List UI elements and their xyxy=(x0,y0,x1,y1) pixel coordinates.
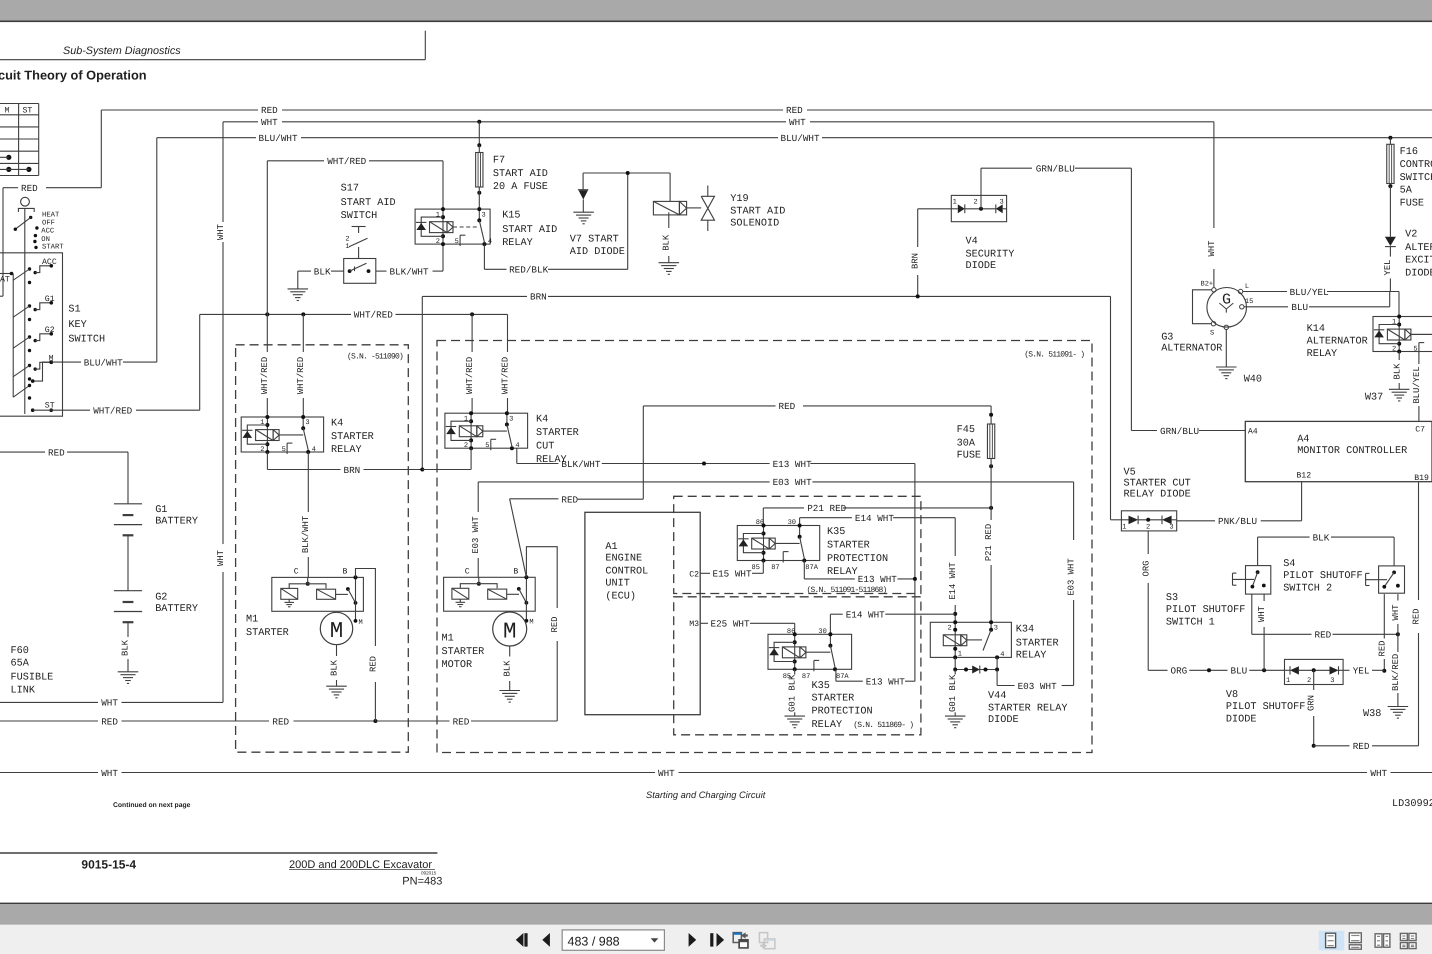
wire E13 WHT vertical xyxy=(913,464,917,682)
svg-text:E13 WHT: E13 WHT xyxy=(773,459,812,470)
svg-text:F45: F45 xyxy=(957,425,975,436)
svg-text:RED: RED xyxy=(453,716,470,727)
svg-text:WHT: WHT xyxy=(101,768,118,779)
svg-text:M: M xyxy=(330,618,344,644)
svg-text:V4: V4 xyxy=(966,237,978,248)
svg-text:WHT: WHT xyxy=(1370,768,1387,779)
svg-text:RED: RED xyxy=(272,716,289,727)
toolbar last-page button xyxy=(710,933,724,947)
S1 contact G2 xyxy=(13,326,55,352)
wire RED mid bus xyxy=(643,401,991,499)
wire YEL V8 to S4 xyxy=(1343,666,1384,677)
wire RED top bus xyxy=(101,105,1432,116)
svg-text:1: 1 xyxy=(1122,523,1126,531)
wire RED diagonal to starter B xyxy=(510,499,527,578)
wire BRN V4 to BRN bus xyxy=(911,209,952,297)
svg-text:87A: 87A xyxy=(836,673,849,681)
S17 pushbutton symbol xyxy=(345,227,367,259)
svg-text:3: 3 xyxy=(482,211,486,219)
svg-text:M3: M3 xyxy=(689,620,699,629)
svg-text:9015-15-4: 9015-15-4 xyxy=(81,857,136,871)
svg-text:3: 3 xyxy=(509,415,513,423)
svg-text:DIODE: DIODE xyxy=(1226,714,1257,725)
svg-text:STARTER CUT: STARTER CUT xyxy=(1124,479,1191,490)
toolbar single-page layout button (selected) xyxy=(1319,931,1345,951)
svg-text:BATTERY: BATTERY xyxy=(155,517,198,528)
toolbar navigate-back icon xyxy=(733,932,749,948)
svg-text:BLU/WHT: BLU/WHT xyxy=(84,357,123,368)
ground W38 xyxy=(1363,707,1408,721)
svg-text:K14: K14 xyxy=(1307,324,1325,335)
svg-text:UNIT: UNIT xyxy=(605,579,629,590)
svg-text:cuit Theory of Operation: cuit Theory of Operation xyxy=(0,68,147,83)
svg-text:BLK: BLK xyxy=(1392,363,1402,380)
wire PNK/BLU A4 B12 to V5 pin3 xyxy=(1177,482,1302,527)
wire P21 RED from K35A pin86 xyxy=(763,503,993,525)
controller A4 MONITOR CONTROLLER box xyxy=(1245,421,1432,483)
svg-text:M1: M1 xyxy=(442,634,454,645)
svg-text:Continued on next page: Continued on next page xyxy=(113,802,191,809)
wire vertical S17 to K15 pin1 xyxy=(442,161,444,209)
ground S17 xyxy=(288,289,309,301)
svg-text:WHT/RED: WHT/RED xyxy=(500,357,510,394)
S1 contact M xyxy=(13,354,53,380)
table dot M row xyxy=(0,155,11,160)
wire ORG V5 pin2 down xyxy=(1142,531,1152,670)
svg-text:1: 1 xyxy=(1392,319,1396,327)
wire WHT S4 right xyxy=(1391,594,1401,634)
footer 200D and 200DLC Excavator xyxy=(289,859,437,876)
svg-text:BLK/RED: BLK/RED xyxy=(1391,654,1401,691)
svg-text:SWITCH 2: SWITCH 2 xyxy=(1283,583,1332,594)
svg-text:BATTERY: BATTERY xyxy=(155,604,198,615)
svg-text:ST: ST xyxy=(23,106,33,115)
svg-text:M: M xyxy=(359,619,363,627)
svg-text:200D and 200DLC Excavator: 200D and 200DLC Excavator xyxy=(289,859,432,871)
svg-text:483 / 988: 483 / 988 xyxy=(568,934,620,948)
svg-text:S17: S17 xyxy=(341,183,359,194)
svg-text:K4: K4 xyxy=(536,415,548,426)
toolbar continuous layout button xyxy=(1349,933,1361,949)
svg-text:E14 WHT: E14 WHT xyxy=(855,513,894,524)
svg-text:RELAY: RELAY xyxy=(827,567,858,578)
wire BRN K4cut pin2 xyxy=(422,448,471,469)
svg-text:GRN/BLU: GRN/BLU xyxy=(1160,426,1199,437)
svg-text:2: 2 xyxy=(1392,346,1396,354)
wire BLK Y19 to ground xyxy=(662,212,672,262)
wire WHT S3 right to BLU line xyxy=(1257,594,1267,670)
svg-text:M: M xyxy=(5,106,10,115)
svg-text:P21 RED: P21 RED xyxy=(807,503,846,514)
svg-text:(S.N. 511091-511868): (S.N. 511091-511868) xyxy=(807,586,887,595)
wire RED from battery bus to key switch xyxy=(0,183,101,296)
svg-text:5: 5 xyxy=(455,238,459,246)
svg-text:BRN: BRN xyxy=(344,465,361,476)
svg-text:ORG: ORG xyxy=(1171,666,1188,677)
svg-text:RED: RED xyxy=(1378,641,1388,657)
wire BAT terminal xyxy=(0,272,13,285)
svg-text:(S.N. 511091- ): (S.N. 511091- ) xyxy=(1024,350,1084,359)
svg-text:V8: V8 xyxy=(1226,690,1238,701)
wire ORG/BLU to V8 xyxy=(1148,666,1284,677)
svg-text:15: 15 xyxy=(1245,298,1253,306)
svg-text:RED/BLK: RED/BLK xyxy=(509,265,548,276)
wire WHT/RED S17 top xyxy=(267,156,443,167)
svg-text:G01 BLK: G01 BLK xyxy=(948,674,958,712)
svg-text:ALTER: ALTER xyxy=(1405,243,1432,254)
svg-text:BLU/WHT: BLU/WHT xyxy=(781,133,820,144)
wire WHT top bus xyxy=(223,117,1214,128)
junction dot WHT bus / F7 xyxy=(477,120,481,124)
toolbar first-page button xyxy=(516,933,528,947)
svg-text:WHT: WHT xyxy=(1207,241,1217,257)
svg-text:GRN/BLU: GRN/BLU xyxy=(1036,164,1075,175)
svg-text:STARTER RELAY: STARTER RELAY xyxy=(988,704,1067,715)
ground Y19 xyxy=(659,263,680,275)
relay K4 STARTER RELAY xyxy=(241,415,374,456)
svg-text:WHT: WHT xyxy=(216,224,226,240)
svg-text:WHT/RED: WHT/RED xyxy=(260,357,270,394)
wire BLU/YEL K14 pin5 to A4 C7 xyxy=(1412,353,1422,422)
diode assembly V5 STARTER CUT RELAY DIODE xyxy=(1121,467,1190,531)
wire RED to ECU area xyxy=(510,494,644,505)
wire BLK/RED to W38 ground xyxy=(1391,634,1401,706)
wire BLK M1 motor to ground xyxy=(503,646,513,691)
ground K34 xyxy=(945,716,966,728)
svg-text:YEL: YEL xyxy=(1383,260,1393,276)
svg-text:B: B xyxy=(513,567,518,576)
svg-text:ACC: ACC xyxy=(42,258,57,267)
svg-text:5: 5 xyxy=(1413,346,1417,354)
svg-text:L: L xyxy=(1245,283,1249,291)
svg-text:WHT/RED: WHT/RED xyxy=(93,405,132,416)
svg-text:WHT: WHT xyxy=(658,768,675,779)
caption Continued on next page xyxy=(113,802,191,809)
svg-text:RED: RED xyxy=(368,656,378,672)
svg-text:BLK/WHT: BLK/WHT xyxy=(561,459,600,470)
svg-text:K4: K4 xyxy=(331,419,343,430)
svg-text:FUSE: FUSE xyxy=(1400,199,1424,210)
svg-text:STARTER: STARTER xyxy=(1016,638,1059,649)
svg-text:RED: RED xyxy=(21,183,38,194)
wire BLU/WHT from S1 M contact xyxy=(31,138,157,383)
svg-text:WHT: WHT xyxy=(1257,606,1267,622)
svg-text:85: 85 xyxy=(752,564,760,572)
svg-text:WHT: WHT xyxy=(101,698,118,709)
svg-text:C: C xyxy=(294,567,299,576)
svg-text:P21 RED: P21 RED xyxy=(984,524,994,561)
svg-text:B: B xyxy=(343,567,348,576)
controller A1 ENGINE CONTROL UNIT box xyxy=(585,512,700,714)
ground battery xyxy=(118,672,139,684)
wire WHT/RED from S1 ST contact xyxy=(33,314,200,416)
footer rule xyxy=(0,852,437,854)
svg-text:65A: 65A xyxy=(11,659,30,670)
svg-text:W38: W38 xyxy=(1363,709,1381,720)
svg-text:BLK: BLK xyxy=(503,660,513,677)
svg-text:PN=483: PN=483 xyxy=(402,875,442,887)
battery G1 xyxy=(114,504,198,536)
svg-text:4: 4 xyxy=(488,238,492,246)
svg-text:WHT/RED: WHT/RED xyxy=(354,310,393,321)
diode V44 STARTER RELAY DIODE xyxy=(953,657,1067,726)
dashed box K35 early xyxy=(674,496,921,593)
svg-text:Y19: Y19 xyxy=(730,194,748,205)
wire P21 RED F45 to K34 pin3 xyxy=(984,466,994,622)
svg-text:HEAT: HEAT xyxy=(42,211,60,219)
dashed box S.N. 511091- xyxy=(437,341,1092,753)
caption LD30992 xyxy=(1392,799,1432,810)
starter M1 STARTER MOTOR solenoid xyxy=(442,567,536,671)
footer PN=483 xyxy=(402,875,442,887)
wire RED S4 left to YEL line xyxy=(1378,594,1388,673)
svg-text:1: 1 xyxy=(345,243,349,251)
svg-text:86: 86 xyxy=(787,628,795,636)
svg-text:4: 4 xyxy=(515,442,519,450)
svg-text:CONTROL: CONTROL xyxy=(1400,160,1432,171)
svg-text:SOLENOID: SOLENOID xyxy=(730,219,779,230)
svg-text:START AID: START AID xyxy=(493,169,548,180)
key switch contact table xyxy=(0,104,39,176)
svg-text:WHT: WHT xyxy=(216,550,226,566)
wire W40 ground G3 xyxy=(1216,330,1262,386)
solenoid Y19 coil xyxy=(653,173,785,230)
svg-text:BLK: BLK xyxy=(120,639,130,656)
wire WHT/RED bus xyxy=(200,310,508,321)
svg-text:BRN: BRN xyxy=(530,292,547,303)
toolbar next-page button xyxy=(689,933,697,947)
relay K15 START AID xyxy=(415,207,557,249)
motor M1 STARTER MOTOR xyxy=(493,612,527,646)
svg-text:2: 2 xyxy=(260,446,264,454)
svg-text:SECURITY: SECURITY xyxy=(966,250,1015,261)
S1 contact ST xyxy=(13,384,55,412)
svg-text:E03 WHT: E03 WHT xyxy=(471,516,481,553)
svg-text:RELAY: RELAY xyxy=(1307,349,1338,360)
ground M1 early xyxy=(326,686,347,698)
svg-text:MOTOR: MOTOR xyxy=(442,660,473,671)
diode assembly V8 PILOT SHUTOFF DIODE xyxy=(1226,659,1343,725)
ground W37 xyxy=(1365,389,1410,403)
svg-text:START AID: START AID xyxy=(341,198,396,209)
wire BLK/WHT E13 from K4cut pin4 xyxy=(517,448,915,470)
svg-text:30: 30 xyxy=(818,628,826,636)
wire BLU/YEL G3 L to K14 xyxy=(1243,287,1399,317)
toolbar book-view layout button xyxy=(1400,933,1416,948)
wire RED M1 early B to RED bus xyxy=(356,569,379,722)
svg-text:1: 1 xyxy=(1286,677,1290,685)
svg-text:RED: RED xyxy=(48,447,65,458)
wire E03 WHT from K34 pin4 xyxy=(997,482,1076,692)
svg-text:G2: G2 xyxy=(155,593,167,604)
wire WHT/RED vertical to K4 pin1 xyxy=(260,161,270,417)
svg-text:2: 2 xyxy=(948,624,952,632)
wire RED line S3-S4 xyxy=(1252,630,1400,641)
svg-text:1: 1 xyxy=(464,415,468,423)
wire WHT bottom bus xyxy=(0,768,1432,779)
svg-text:E03 WHT: E03 WHT xyxy=(1018,681,1057,692)
pdf viewer toolbar background xyxy=(0,925,1432,954)
svg-text:V7 START: V7 START xyxy=(570,234,619,245)
wire E14 WHT from K35A pin30 xyxy=(800,513,959,622)
svg-text:V2: V2 xyxy=(1405,230,1417,241)
svg-text:3: 3 xyxy=(1000,199,1004,207)
wire BRN K4 pin2 xyxy=(267,452,424,476)
svg-text:LINK: LINK xyxy=(11,685,36,696)
wire WHT to G3 B2+ xyxy=(1207,122,1217,288)
svg-text:A4: A4 xyxy=(1248,428,1258,437)
svg-text:PNK/BLU: PNK/BLU xyxy=(1218,516,1257,527)
svg-text:RELAY: RELAY xyxy=(812,720,843,731)
wire V7/Y19 top link xyxy=(583,171,670,175)
svg-text:RED: RED xyxy=(561,494,578,505)
wire BLK/WHT K4 pin4 to starter xyxy=(301,452,311,577)
svg-text:PROTECTION: PROTECTION xyxy=(812,707,873,718)
svg-text:K34: K34 xyxy=(1016,625,1034,636)
S1 contact G1 xyxy=(13,295,55,321)
S1 labels xyxy=(68,305,105,346)
pdf viewer bottom gray band xyxy=(0,903,1432,925)
svg-text:STARTER: STARTER xyxy=(536,428,579,439)
alternator G3 xyxy=(1161,280,1253,354)
diode V7 START AID xyxy=(570,173,625,258)
svg-text:C7: C7 xyxy=(1415,425,1425,434)
svg-text:CONTROL: CONTROL xyxy=(605,566,648,577)
svg-text:S: S xyxy=(1210,329,1214,337)
footer 9015-15-4 xyxy=(81,857,136,871)
wire E14 WHT from K35B pin30 xyxy=(830,610,955,635)
svg-text:RELAY: RELAY xyxy=(331,445,362,456)
svg-text:S1: S1 xyxy=(68,305,80,316)
svg-text:B19: B19 xyxy=(1414,474,1429,483)
svg-text:BLU: BLU xyxy=(1231,666,1248,677)
svg-text:OFF: OFF xyxy=(42,220,55,228)
svg-text:2: 2 xyxy=(1146,523,1150,531)
svg-text:5A: 5A xyxy=(1400,186,1413,197)
svg-text:MONITOR CONTROLLER: MONITOR CONTROLLER xyxy=(1297,446,1407,457)
wire WHT/RED vertical to K4cut pin1 xyxy=(465,314,475,413)
wire RED to G1 battery xyxy=(0,447,128,503)
motor M1 (early) xyxy=(320,612,352,644)
svg-text:STARTER: STARTER xyxy=(331,432,374,443)
wire E25 WHT ECU M3 to K35B pin86 xyxy=(689,619,795,635)
relay K35 STARTER PROTECTION (late) xyxy=(768,628,913,731)
svg-text:Sub-System Diagnostics: Sub-System Diagnostics xyxy=(63,45,181,57)
wire RED bottom bus xyxy=(0,716,557,727)
wire RED starter B loop to RED bus xyxy=(526,547,560,721)
S17 contacts xyxy=(348,263,371,273)
wire S3 left to RED line xyxy=(1251,594,1253,634)
svg-text:87: 87 xyxy=(802,673,810,681)
svg-text:(S.N. -511090): (S.N. -511090) xyxy=(347,352,403,361)
svg-text:2: 2 xyxy=(1307,677,1311,685)
svg-text:BLK: BLK xyxy=(329,659,339,676)
valve symbol Y19 xyxy=(687,186,715,232)
svg-text:ACC: ACC xyxy=(41,228,55,236)
wire WHT/RED vertical to K4cut pin3 xyxy=(500,314,510,413)
wire BRN bus xyxy=(422,292,1110,520)
svg-text:WHT: WHT xyxy=(1391,605,1401,621)
pdf viewer top gray bar xyxy=(0,0,1432,22)
svg-text:AID DIODE: AID DIODE xyxy=(570,247,625,258)
svg-text:SWITCH: SWITCH xyxy=(68,335,105,346)
svg-text:V44: V44 xyxy=(988,691,1006,702)
svg-text:1: 1 xyxy=(436,211,440,219)
svg-text:START: START xyxy=(42,243,64,251)
svg-text:WHT/RED: WHT/RED xyxy=(465,357,475,394)
section title Circuit Theory of Operation xyxy=(0,68,147,83)
svg-text:WHT: WHT xyxy=(261,117,278,128)
svg-text:G2: G2 xyxy=(45,326,55,335)
svg-text:RED: RED xyxy=(550,617,560,633)
svg-text:ENGINE: ENGINE xyxy=(605,554,642,565)
wire GRN/BLU from V4 xyxy=(981,164,1131,431)
svg-text:C2: C2 xyxy=(689,570,699,579)
starter M1 (early) solenoid xyxy=(246,567,363,639)
svg-text:DIODE: DIODE xyxy=(988,715,1019,726)
fuse F7 START AID 20A xyxy=(476,122,548,209)
svg-text:E13 WHT: E13 WHT xyxy=(858,574,897,585)
ground M1 motor xyxy=(499,691,520,703)
svg-text:GRN: GRN xyxy=(1307,695,1317,711)
battery G2 xyxy=(114,591,198,623)
junction dot BLU/WHT bus / F16 xyxy=(1388,136,1392,140)
relay K35 STARTER PROTECTION (early) xyxy=(737,519,888,595)
svg-text:BLK: BLK xyxy=(1313,532,1330,543)
svg-text:YEL: YEL xyxy=(1353,666,1370,677)
wire E13 WHT from K35B pin87A xyxy=(836,669,915,687)
svg-text:E03 WHT: E03 WHT xyxy=(773,477,812,488)
key switch S1 rotary symbol xyxy=(14,197,65,414)
svg-text:AT: AT xyxy=(0,276,10,285)
svg-text:BLU/WHT: BLU/WHT xyxy=(259,133,298,144)
svg-text:BLU: BLU xyxy=(1291,302,1308,313)
wire RED riser from key switch xyxy=(100,110,102,188)
wire YEL V2 to K14 xyxy=(1383,247,1393,292)
svg-text:3: 3 xyxy=(1330,677,1334,685)
svg-text:PROTECTION: PROTECTION xyxy=(827,554,888,565)
svg-text:20 A FUSE: 20 A FUSE xyxy=(493,182,548,193)
svg-text:BLK: BLK xyxy=(662,234,672,251)
svg-text:RED: RED xyxy=(1315,630,1332,641)
svg-text:3: 3 xyxy=(994,624,998,632)
svg-text:M1: M1 xyxy=(246,615,258,626)
svg-text:B2+: B2+ xyxy=(1201,280,1214,288)
wire BLK battery to ground xyxy=(120,622,130,672)
svg-text:W40: W40 xyxy=(1244,375,1262,386)
svg-text:ST: ST xyxy=(45,401,55,410)
svg-text:2: 2 xyxy=(464,442,468,450)
S17 labels xyxy=(341,183,396,222)
svg-text:BLU/YEL: BLU/YEL xyxy=(1412,366,1422,403)
relay K14 ALTERNATOR RELAY xyxy=(1307,315,1432,361)
svg-text:CUT: CUT xyxy=(536,442,554,453)
svg-text:V5: V5 xyxy=(1124,467,1136,478)
svg-text:S4: S4 xyxy=(1283,559,1295,570)
relay K4 STARTER CUT RELAY xyxy=(445,411,579,466)
svg-text:RELAY: RELAY xyxy=(1016,650,1047,661)
wire RED to A4 B19 xyxy=(1314,482,1422,752)
svg-text:30: 30 xyxy=(788,519,796,527)
svg-text:F60: F60 xyxy=(11,646,29,657)
junction dots WHT/RED bus xyxy=(265,312,474,316)
dashed box S.N. -511090 xyxy=(236,345,409,752)
wire WHT bottom-left segment xyxy=(0,698,223,709)
svg-text:BLK/WHT: BLK/WHT xyxy=(390,266,429,277)
header title Sub-System Diagnostics xyxy=(63,45,181,57)
svg-text:RED: RED xyxy=(1353,741,1370,752)
fuse F45 30A xyxy=(957,406,995,468)
